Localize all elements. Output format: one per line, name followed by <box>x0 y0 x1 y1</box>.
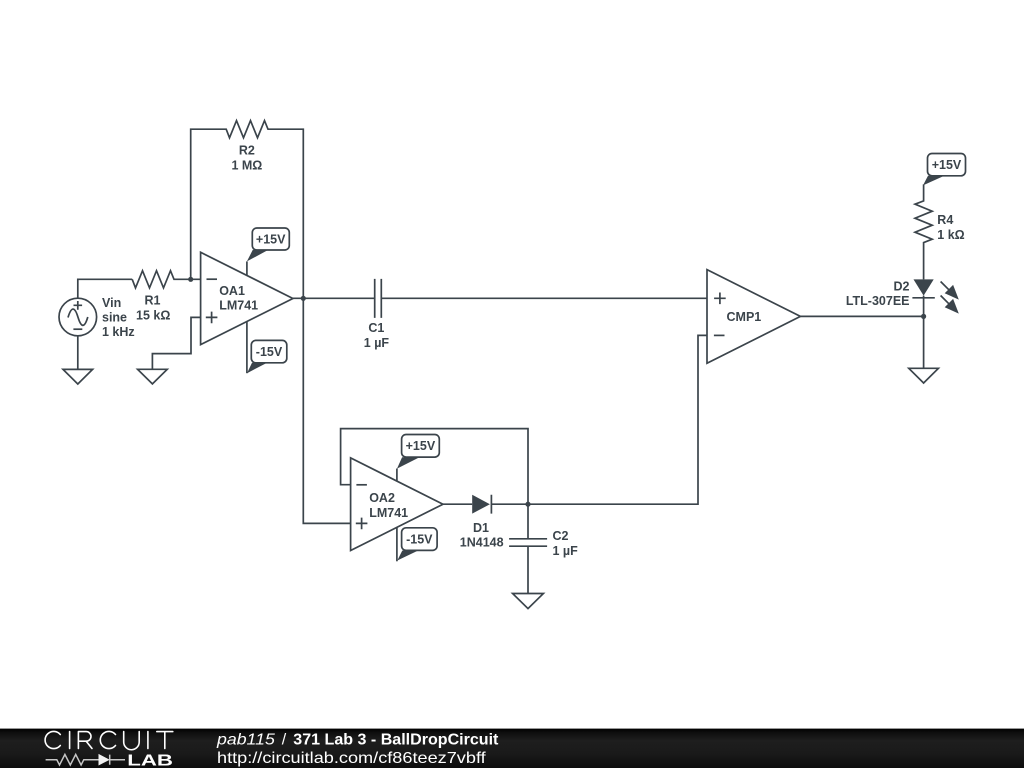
svg-text:R4: R4 <box>937 213 953 227</box>
svg-text:D1: D1 <box>473 521 489 535</box>
svg-text:http://circuitlab.com/cf86teez: http://circuitlab.com/cf86teez7vbff <box>217 750 486 767</box>
svg-text:pab115/371 Lab 3 - BallDropCir: pab115/371 Lab 3 - BallDropCircuit <box>216 732 499 749</box>
svg-text:-15V: -15V <box>406 533 433 547</box>
svg-text:Vin: Vin <box>102 296 121 310</box>
svg-text:D2: D2 <box>894 279 910 293</box>
svg-text:1 kHz: 1 kHz <box>102 325 135 339</box>
svg-text:LTL-307EE: LTL-307EE <box>846 294 910 308</box>
svg-text:1 MΩ: 1 MΩ <box>231 158 262 172</box>
svg-text:1 kΩ: 1 kΩ <box>937 228 964 242</box>
svg-text:-15V: -15V <box>256 345 283 359</box>
svg-text:LM741: LM741 <box>369 506 408 520</box>
svg-text:LAB: LAB <box>127 752 173 768</box>
svg-text:1 µF: 1 µF <box>364 336 390 350</box>
svg-text:+15V: +15V <box>932 158 962 172</box>
svg-text:LM741: LM741 <box>219 298 258 312</box>
svg-text:+15V: +15V <box>256 233 286 247</box>
svg-text:1N4148: 1N4148 <box>460 535 504 549</box>
svg-text:15 kΩ: 15 kΩ <box>136 309 170 323</box>
svg-text:OA1: OA1 <box>219 284 245 298</box>
svg-text:C2: C2 <box>553 529 569 543</box>
svg-text:OA2: OA2 <box>369 491 395 505</box>
svg-text:R1: R1 <box>145 294 161 308</box>
svg-text:R2: R2 <box>239 144 255 158</box>
svg-text:sine: sine <box>102 310 127 324</box>
svg-text:C1: C1 <box>368 321 384 335</box>
svg-text:1 µF: 1 µF <box>553 544 579 558</box>
svg-text:CMP1: CMP1 <box>727 310 762 324</box>
svg-text:+15V: +15V <box>406 439 436 453</box>
